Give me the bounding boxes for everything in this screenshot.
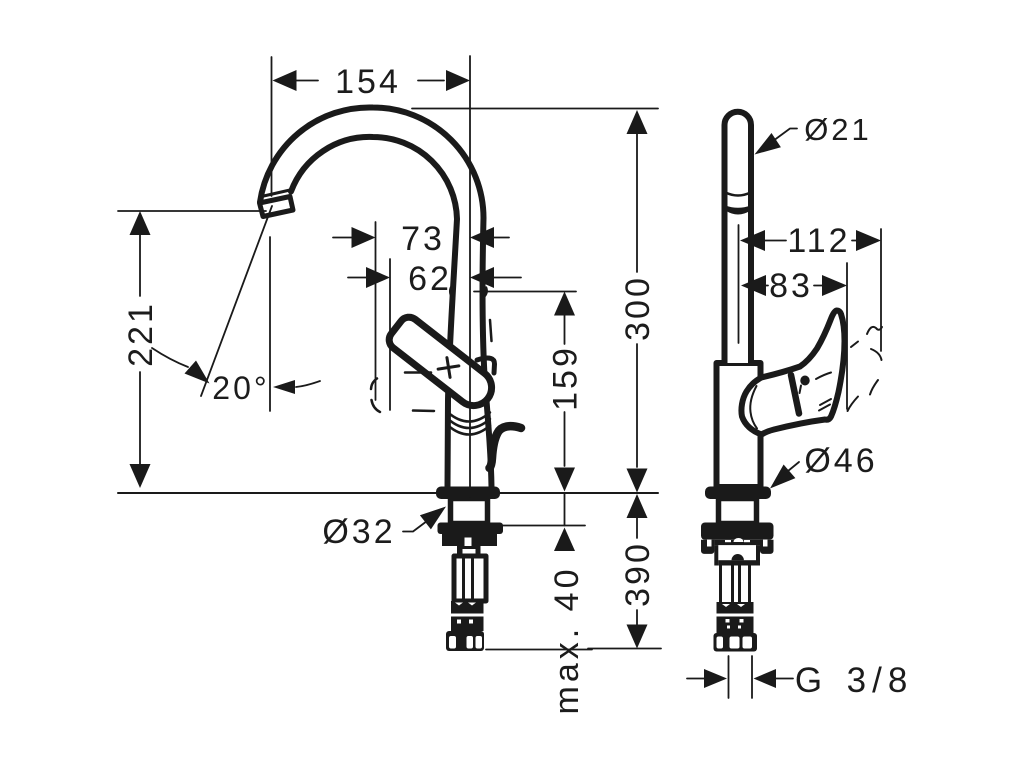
dim 221 top extension [118, 210, 266, 212]
pipe center extension line [738, 225, 740, 343]
arrow 20deg left [185, 361, 210, 384]
shank front [451, 499, 488, 524]
corrugation block 2 side [717, 617, 754, 634]
dim 83 line [766, 285, 822, 287]
svg-text:max. 40: max. 40 [548, 566, 586, 715]
corrugation block 1 front [451, 601, 484, 614]
arrow 300 bottom [627, 469, 648, 493]
20 deg vertical ref [269, 237, 271, 411]
svg-text:73: 73 [401, 220, 445, 258]
svg-text:3/8: 3/8 [847, 661, 914, 700]
arrow 154 right [446, 70, 470, 91]
arrow G38 right [754, 669, 777, 688]
dim 83 extension right [846, 263, 848, 409]
handle nib [477, 358, 495, 373]
arrow O32 [420, 507, 446, 530]
arrow max40 up [554, 528, 575, 552]
plus mark on handle [437, 356, 461, 379]
swivel rings [448, 413, 490, 422]
arrow 62 left [366, 267, 390, 288]
arrow 62 right [470, 267, 494, 288]
dim 390 bottom tick [588, 648, 661, 650]
arrow 159 top [554, 292, 575, 316]
svg-text:Ø21: Ø21 [804, 112, 872, 147]
blade tick lines [819, 399, 831, 411]
max40 connector line [564, 493, 566, 526]
dashed handle alternate position [371, 288, 492, 413]
arrow 73 left [352, 227, 376, 248]
G38 dim line [687, 678, 793, 680]
O21 leader [773, 129, 797, 142]
hose-to-tick line [486, 649, 592, 651]
handle side outline [741, 311, 844, 435]
handle tail hook [490, 426, 522, 468]
svg-text:Ø46: Ø46 [804, 442, 877, 480]
handle pivot dot [800, 376, 809, 386]
dim 300 line [636, 134, 638, 467]
arrow 221 bottom [130, 464, 151, 488]
blade top thin line [816, 373, 831, 380]
dim 154 line [297, 80, 445, 82]
hoses front [454, 556, 486, 601]
svg-text:154: 154 [335, 63, 401, 101]
dim 154 extension lines [271, 57, 273, 196]
swing dashes [848, 327, 883, 411]
svg-text:159: 159 [547, 345, 585, 411]
arrow 112 left [740, 230, 765, 251]
flange front [436, 487, 500, 500]
dim 73 line [333, 237, 509, 239]
svg-text:390: 390 [619, 541, 657, 607]
svg-text:300: 300 [619, 275, 657, 341]
svg-text:G: G [795, 661, 825, 700]
dim 112 line [765, 240, 856, 242]
20 deg left leader [152, 348, 188, 367]
svg-text:20°: 20° [212, 370, 269, 406]
O46 leader [788, 462, 799, 471]
corrugation block 1 side [717, 602, 754, 614]
aerator band side [726, 193, 751, 196]
pipe side [725, 112, 752, 363]
shank side [719, 499, 757, 524]
dim 62 line [348, 277, 521, 279]
handle front (rounded lever) [385, 313, 499, 413]
max40 tick line [502, 525, 585, 527]
arrow 112 right [856, 230, 881, 251]
dim 390 line [636, 518, 638, 625]
arrowheads [130, 70, 882, 688]
aerator joint line [262, 190, 291, 197]
arrow 73 right [470, 227, 494, 248]
hose connector side [714, 633, 758, 652]
20 deg slanted line [201, 206, 272, 396]
spout outer arc [260, 107, 492, 487]
arrow 300 top [627, 110, 648, 134]
dim 73 extension [375, 222, 377, 400]
flange side [705, 487, 771, 500]
arrow 20deg right [273, 380, 295, 394]
arrow 159 bottom [554, 468, 575, 492]
svg-text:83: 83 [769, 267, 813, 305]
hoses side [721, 565, 750, 602]
spout tip face [260, 197, 294, 217]
spout inner arc [291, 137, 457, 487]
arrow O46 [770, 465, 795, 489]
arrow 83 right [822, 275, 847, 296]
arrow 154 left [273, 70, 297, 91]
arrow 390 bottom [627, 625, 648, 649]
dim 159 top extension [474, 291, 576, 293]
corrugation block 2 front [451, 617, 484, 632]
arrow 390 top [627, 494, 648, 518]
arrow O21 [755, 133, 781, 155]
handle strap [791, 375, 799, 414]
20 deg right leader [296, 381, 320, 387]
nut side [701, 523, 774, 540]
svg-text:Ø32: Ø32 [322, 513, 395, 551]
dim 112 extension right [880, 229, 882, 351]
arrow 221 top [130, 211, 151, 235]
dim 300 top extension [412, 108, 658, 110]
body side [717, 363, 761, 487]
dim 159 line [564, 315, 566, 466]
svg-text:112: 112 [787, 222, 850, 260]
dim 221 line [139, 233, 141, 466]
O32 leader [403, 518, 431, 532]
svg-text:62: 62 [408, 260, 452, 298]
dim 62 extension [389, 259, 391, 410]
skirt highlight [750, 386, 757, 429]
hose connector front [446, 631, 484, 651]
mounting nut front [438, 523, 504, 535]
arrow 83 left [741, 275, 766, 296]
deck line [118, 492, 658, 494]
arrow G38 left [704, 669, 727, 688]
svg-text:221: 221 [122, 301, 160, 367]
G38 extension lines [729, 656, 753, 698]
